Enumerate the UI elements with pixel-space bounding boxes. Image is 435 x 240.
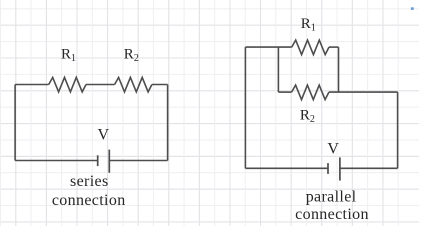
svg-text:R1: R1	[301, 16, 316, 34]
svg-text:connection: connection	[295, 206, 369, 223]
wire: left vertical of parallel loop	[244, 47, 246, 168]
wire: bottom-left segment to battery	[15, 160, 98, 162]
resistor R2 (parallel) zigzag	[292, 85, 329, 100]
wire: row2 left segment to R2	[278, 91, 291, 93]
wire: top-left segment to R1	[15, 84, 49, 86]
svg-text:series: series	[70, 173, 109, 190]
wire: row2 right segment to outer right	[329, 91, 398, 93]
battery V (series): short negative plate	[97, 155, 99, 166]
wire: R1 to right junction	[329, 46, 339, 48]
resistor R2 (series) zigzag	[115, 77, 152, 92]
wire: bottom-right segment from battery	[109, 160, 167, 162]
resistor R1 (series) zigzag	[49, 77, 86, 92]
wire: right vertical of parallel loop	[397, 92, 399, 168]
blue dot marker top-right	[411, 7, 414, 10]
wire: parallel block right vertical	[338, 47, 340, 92]
svg-text:V: V	[98, 126, 110, 143]
battery V (series): tall positive plate	[108, 150, 110, 173]
svg-text:parallel: parallel	[306, 189, 357, 206]
wire: segment between R1 and R2	[86, 84, 115, 86]
svg-text:R2: R2	[124, 47, 139, 65]
resistor R1 (parallel) zigzag	[292, 40, 329, 55]
svg-text:R1: R1	[61, 47, 76, 65]
wire: top segment to R1	[245, 46, 291, 48]
battery V (parallel): short negative plate	[327, 163, 329, 174]
wire: bottom-right segment from battery	[340, 167, 398, 169]
wire: bottom-left segment to battery	[245, 167, 328, 169]
wire: parallel block left vertical	[277, 47, 279, 92]
wire: left vertical of series loop	[14, 85, 16, 161]
wire: right vertical of series loop	[167, 85, 169, 161]
wire: top-right segment after R2	[152, 84, 168, 86]
svg-text:R2: R2	[300, 107, 315, 125]
svg-text:V: V	[327, 141, 339, 158]
svg-text:connection: connection	[52, 192, 126, 209]
battery V (parallel): tall positive plate	[339, 157, 341, 180]
